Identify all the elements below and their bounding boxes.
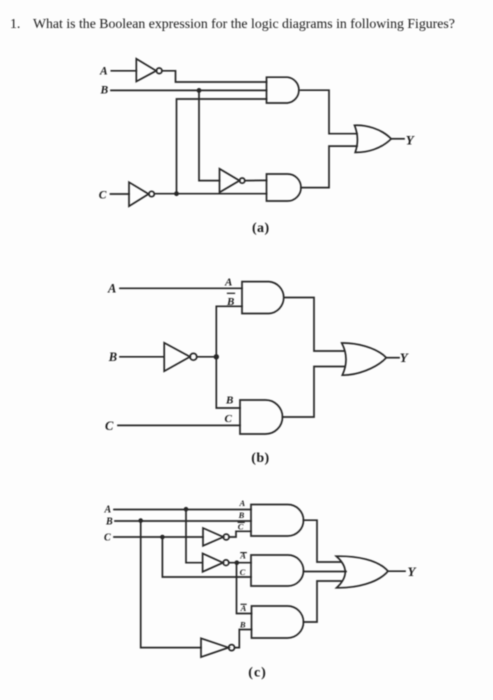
svg-text:A: A xyxy=(104,505,112,516)
svg-text:(b): (b) xyxy=(251,451,269,466)
inverter Abar (c) xyxy=(203,554,223,572)
wire AND6 out to OR (c) xyxy=(304,571,347,573)
junction B (c) xyxy=(138,518,143,523)
junction B (a) xyxy=(197,88,202,93)
inverter C (a) xyxy=(129,182,149,206)
wire A down to inverter (c) xyxy=(186,510,203,563)
inverter Bbar bubble (c) xyxy=(229,645,235,651)
wire AND1 out to OR (a) xyxy=(301,90,358,134)
overbar of pin label Abar (c) xyxy=(241,552,247,554)
wire B' to AND2 (a) xyxy=(245,179,267,181)
svg-text:1.: 1. xyxy=(10,16,20,31)
wire B' to junction (b) xyxy=(197,356,217,358)
wire C down to AND6 (c) xyxy=(162,537,251,577)
OR gate (c) xyxy=(336,556,388,588)
OR gate (a) xyxy=(355,125,392,152)
AND gate AND2 (a) xyxy=(267,174,302,201)
overbar of pin label Bbar (b) xyxy=(228,292,235,294)
svg-text:C: C xyxy=(225,413,233,425)
wire B down to inverter (c) xyxy=(141,521,201,648)
inverter B (b) xyxy=(164,343,190,371)
inverter C bubble (a) xyxy=(149,191,154,196)
svg-text:C: C xyxy=(240,567,246,577)
middle inverter bubble (a) xyxy=(240,178,245,183)
AND gate AND4 (b) xyxy=(240,400,283,434)
svg-text:B: B xyxy=(225,395,233,407)
svg-text:A: A xyxy=(224,276,232,288)
svg-text:B: B xyxy=(108,350,117,364)
OR gate (b) xyxy=(342,343,387,375)
wire Cbar to AND5 (c) xyxy=(229,531,251,537)
wire C' to AND2 (a) xyxy=(154,193,266,195)
AND gate AND3 (b) xyxy=(242,282,284,314)
wire B down to middle inverter (a) xyxy=(199,90,220,180)
svg-text:Y: Y xyxy=(408,564,417,579)
svg-text:B: B xyxy=(238,510,245,520)
inverter Bbar (c) xyxy=(201,638,229,657)
junction A (c) xyxy=(184,507,189,512)
svg-text:C: C xyxy=(104,533,111,544)
middle inverter (a) xyxy=(220,169,240,193)
overbar of pin label Cbar (c) xyxy=(238,521,244,523)
inverter A bubble (a) xyxy=(156,68,162,74)
svg-text:(c): (c) xyxy=(248,665,267,680)
wire C' up to AND1 (a) xyxy=(177,99,267,194)
wire AND7 out to OR (c) xyxy=(304,581,342,622)
wire AND4 out to OR (b) xyxy=(283,367,345,418)
wire A' to AND1 (a) xyxy=(162,71,267,82)
junction C' (a) xyxy=(174,191,179,196)
wire B to AND1 (a) xyxy=(111,89,267,91)
wire A to AND3 (b) xyxy=(120,287,242,289)
wire Abar to AND6 (c) xyxy=(229,562,251,564)
inverter A (a) xyxy=(136,59,156,82)
AND gate AND1 (a) xyxy=(267,77,299,103)
junction Abar (c) xyxy=(235,560,240,565)
svg-text:Y: Y xyxy=(400,350,409,365)
inverter Cbar (c) xyxy=(203,528,223,546)
inverter B bubble (b) xyxy=(190,353,197,360)
junction C (c) xyxy=(160,535,165,540)
wire A to inverter (a) xyxy=(111,70,136,72)
wire B' up to AND3 (b) xyxy=(216,306,242,357)
AND gate AND5 (c) xyxy=(251,505,304,537)
wire OR out (c) xyxy=(388,570,405,572)
inverter Abar bubble (c) xyxy=(223,560,229,566)
junction B' (b) xyxy=(214,354,219,359)
wire AND3 out to OR (b) xyxy=(285,298,344,352)
svg-text:A: A xyxy=(239,498,246,508)
wire B' down to AND4 (b) xyxy=(216,357,240,408)
wire Abar down to AND7 (c) xyxy=(237,563,252,614)
svg-text:B: B xyxy=(105,516,113,527)
wire C to AND4 (b) xyxy=(118,424,240,426)
svg-text:A: A xyxy=(239,550,246,560)
wire A to AND5 (c) xyxy=(114,509,251,511)
wire OR out (a) xyxy=(391,138,404,140)
wire C to inverter (a) xyxy=(111,193,130,195)
svg-text:(a): (a) xyxy=(252,221,270,236)
svg-text:B: B xyxy=(100,84,109,96)
wire OR out (b) xyxy=(386,357,399,359)
AND gate AND6 (c) xyxy=(251,555,304,586)
wire B to AND5 (c) xyxy=(115,520,251,522)
svg-text:C: C xyxy=(105,419,114,433)
wire AND5 out to OR (c) xyxy=(304,520,342,562)
svg-text:A: A xyxy=(107,281,116,295)
wire Bbar to AND7 (c) xyxy=(235,630,252,648)
wire C to inverter (c) xyxy=(114,536,203,538)
svg-text:C: C xyxy=(99,189,107,201)
svg-text:Y: Y xyxy=(406,133,415,148)
svg-text:What is the Boolean expression: What is the Boolean expression for the l… xyxy=(33,16,455,31)
overbar of pin label Abar2 (c) xyxy=(241,603,246,605)
svg-text:B: B xyxy=(239,620,246,630)
wire B to inverter (b) xyxy=(120,356,164,358)
AND gate AND7 (c) xyxy=(252,606,304,638)
wire AND2 out to OR (a) xyxy=(301,146,357,188)
inverter Cbar bubble (c) xyxy=(223,534,229,540)
svg-text:A: A xyxy=(99,65,108,77)
